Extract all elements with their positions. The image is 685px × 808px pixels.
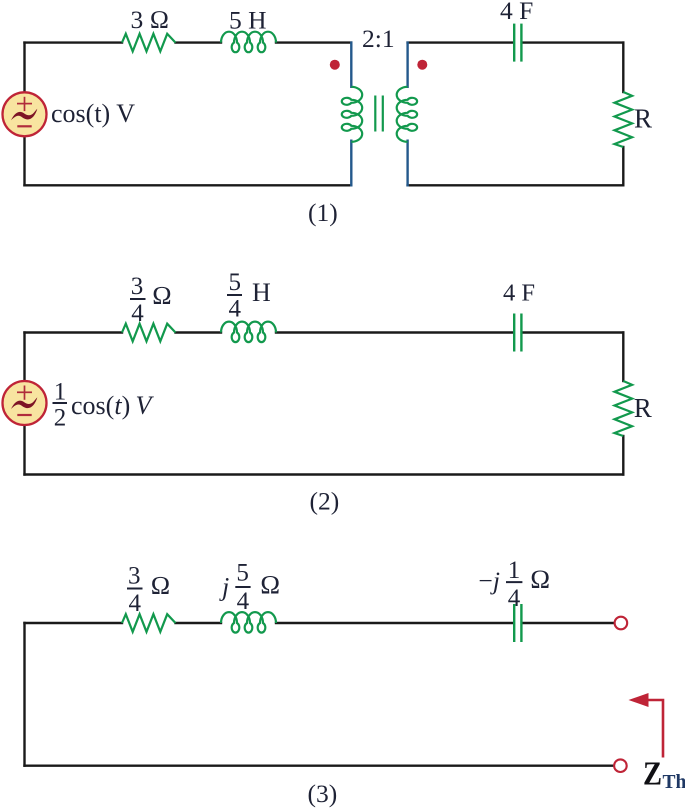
svg-text:Z: Z (643, 754, 662, 792)
svg-text:1: 1 (508, 557, 521, 584)
svg-text:cos(t) V: cos(t) V (51, 99, 135, 128)
svg-text:Ω: Ω (530, 564, 550, 594)
svg-text:H: H (252, 278, 271, 307)
svg-text:(1): (1) (308, 198, 338, 227)
svg-text:2:1: 2:1 (362, 24, 395, 53)
svg-text:4 F: 4 F (503, 280, 535, 307)
svg-text:4: 4 (508, 585, 521, 612)
svg-text:R: R (634, 104, 652, 134)
svg-text:(3): (3) (308, 779, 338, 808)
svg-text:2: 2 (54, 405, 67, 432)
svg-text:3: 3 (128, 563, 141, 590)
svg-text:1: 1 (54, 379, 67, 406)
svg-text:cos(t) V: cos(t) V (71, 391, 154, 420)
svg-text:R: R (634, 393, 652, 423)
svg-text:3 Ω: 3 Ω (131, 5, 170, 34)
svg-text:4: 4 (228, 296, 241, 323)
svg-text:Ω: Ω (151, 571, 171, 600)
svg-text:4: 4 (129, 590, 142, 617)
svg-text:5: 5 (228, 269, 241, 296)
svg-text:4 F: 4 F (500, 0, 533, 25)
svg-text:5 H: 5 H (229, 6, 267, 35)
svg-text:4: 4 (237, 588, 250, 615)
svg-text:Ω: Ω (152, 281, 172, 310)
svg-text:−j: −j (479, 566, 500, 595)
svg-text:4: 4 (131, 300, 144, 327)
svg-text:Th: Th (663, 771, 685, 794)
svg-text:Ω: Ω (260, 570, 280, 600)
svg-text:(2): (2) (310, 487, 340, 516)
svg-text:5: 5 (236, 560, 249, 587)
svg-text:3: 3 (131, 273, 144, 300)
